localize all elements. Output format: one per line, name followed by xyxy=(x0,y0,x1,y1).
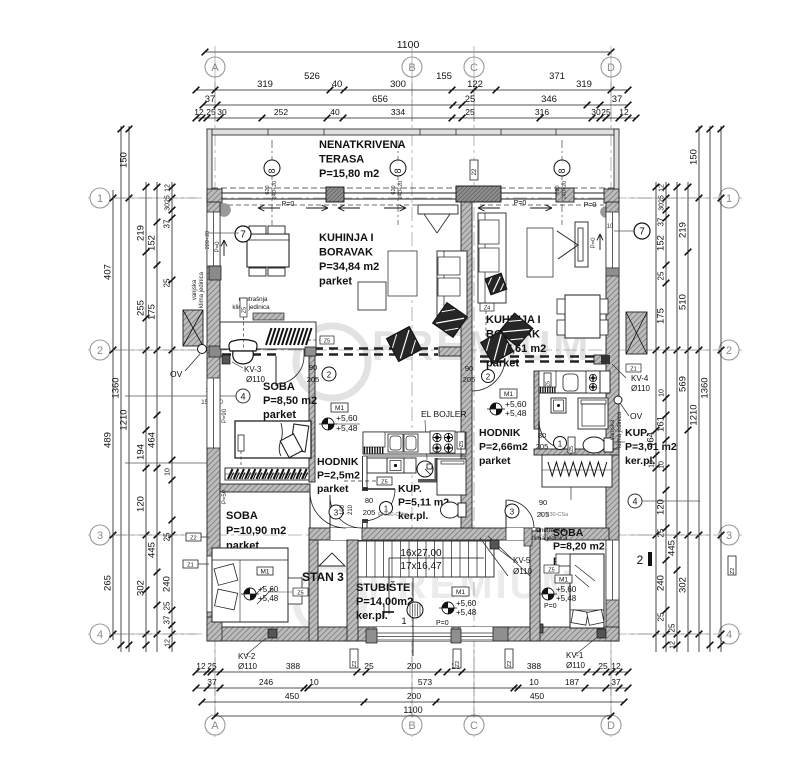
svg-text:+5,48: +5,48 xyxy=(505,408,527,418)
svg-text:2: 2 xyxy=(637,553,644,567)
svg-text:ker.pl.: ker.pl. xyxy=(356,610,388,622)
svg-text:346: 346 xyxy=(541,94,557,105)
svg-text:Ø110: Ø110 xyxy=(238,662,258,671)
svg-text:25: 25 xyxy=(601,107,611,117)
svg-text:1210: 1210 xyxy=(119,409,130,430)
svg-text:300: 300 xyxy=(390,79,406,90)
svg-text:10: 10 xyxy=(309,677,319,687)
svg-text:2: 2 xyxy=(97,345,103,357)
svg-text:HODNIK: HODNIK xyxy=(479,427,521,439)
svg-text:P=0: P=0 xyxy=(436,620,449,627)
svg-text:7: 7 xyxy=(639,227,645,238)
svg-text:25: 25 xyxy=(163,278,172,287)
svg-text:255: 255 xyxy=(136,300,147,316)
svg-text:KUP.: KUP. xyxy=(398,483,422,495)
svg-text:90: 90 xyxy=(309,363,317,372)
svg-text:M1: M1 xyxy=(559,577,568,584)
svg-text:388: 388 xyxy=(286,661,300,671)
svg-text:25: 25 xyxy=(364,661,374,671)
svg-text:656: 656 xyxy=(372,94,388,105)
svg-text:P=0: P=0 xyxy=(282,201,295,208)
svg-text:Z5: Z5 xyxy=(242,307,248,313)
svg-text:P=3,01 m2: P=3,01 m2 xyxy=(625,441,677,453)
svg-text:TERASA: TERASA xyxy=(319,154,364,166)
svg-text:17x16,47: 17x16,47 xyxy=(400,561,442,572)
svg-text:265: 265 xyxy=(103,575,114,591)
svg-text:122: 122 xyxy=(467,79,483,90)
svg-text:Z2: Z2 xyxy=(455,661,461,667)
svg-text:120: 120 xyxy=(136,496,147,512)
svg-text:OV: OV xyxy=(170,369,183,379)
svg-text:30: 30 xyxy=(591,107,601,117)
svg-text:25: 25 xyxy=(465,94,476,105)
svg-text:Z2: Z2 xyxy=(730,568,736,574)
svg-text:152: 152 xyxy=(656,235,667,251)
svg-text:40: 40 xyxy=(330,107,340,117)
svg-text:510: 510 xyxy=(678,294,689,310)
svg-text:ker.pl.: ker.pl. xyxy=(625,455,655,467)
svg-text:Z5: Z5 xyxy=(459,441,465,447)
svg-text:489: 489 xyxy=(103,432,114,448)
svg-text:316: 316 xyxy=(535,107,549,117)
svg-text:150: 150 xyxy=(119,152,130,168)
svg-text:P=14,00m2: P=14,00m2 xyxy=(356,596,413,608)
svg-text:1: 1 xyxy=(401,616,406,626)
svg-text:P=2,66m2: P=2,66m2 xyxy=(479,441,528,453)
svg-text:205: 205 xyxy=(307,375,320,384)
svg-text:12: 12 xyxy=(196,661,206,671)
svg-text:+5,60: +5,60 xyxy=(336,413,358,423)
svg-text:3025: 3025 xyxy=(659,195,666,211)
svg-text:240+20: 240+20 xyxy=(398,181,404,200)
svg-text:Ø110: Ø110 xyxy=(566,661,586,670)
svg-text:573: 573 xyxy=(418,677,432,687)
svg-text:620: 620 xyxy=(391,185,397,194)
svg-text:1: 1 xyxy=(97,193,103,205)
svg-text:parket: parket xyxy=(319,276,352,288)
svg-text:12: 12 xyxy=(670,641,677,649)
svg-text:P=8,20 m2: P=8,20 m2 xyxy=(553,541,605,553)
svg-text:+5,60: +5,60 xyxy=(258,585,279,594)
svg-text:P=0: P=0 xyxy=(591,237,597,249)
svg-text:P=10,90 m2: P=10,90 m2 xyxy=(226,525,286,537)
svg-text:+5,48: +5,48 xyxy=(258,594,279,603)
svg-text:12: 12 xyxy=(165,184,172,192)
svg-text:4: 4 xyxy=(240,392,245,402)
svg-text:Z5: Z5 xyxy=(324,339,330,345)
svg-text:40: 40 xyxy=(332,79,343,90)
svg-text:161: 161 xyxy=(656,416,667,432)
svg-text:unutrašnja: unutrašnja xyxy=(537,527,566,534)
svg-text:A: A xyxy=(211,62,219,74)
svg-text:187: 187 xyxy=(565,677,579,687)
svg-text:12: 12 xyxy=(194,107,204,117)
svg-text:445: 445 xyxy=(147,542,158,558)
svg-text:8: 8 xyxy=(557,168,567,173)
svg-text:194: 194 xyxy=(136,444,147,460)
svg-text:El 230-CSa: El 230-CSa xyxy=(540,512,569,518)
svg-text:450: 450 xyxy=(285,691,299,701)
svg-text:C: C xyxy=(470,720,478,732)
svg-text:16x27,00: 16x27,00 xyxy=(400,548,442,559)
svg-text:22: 22 xyxy=(472,168,478,175)
svg-text:37: 37 xyxy=(207,677,217,687)
svg-text:37: 37 xyxy=(205,94,216,105)
svg-text:1360: 1360 xyxy=(111,377,122,398)
svg-text:Z2: Z2 xyxy=(190,536,196,542)
svg-text:KV-4: KV-4 xyxy=(631,374,649,383)
svg-text:10: 10 xyxy=(659,389,666,397)
svg-text:445: 445 xyxy=(667,540,678,556)
svg-text:Z2: Z2 xyxy=(507,661,513,667)
svg-text:240: 240 xyxy=(162,576,173,592)
svg-text:219: 219 xyxy=(678,222,689,238)
svg-text:240+20: 240+20 xyxy=(272,181,278,200)
svg-text:25: 25 xyxy=(657,612,666,621)
svg-text:25: 25 xyxy=(465,107,475,117)
svg-text:200: 200 xyxy=(407,661,421,671)
svg-text:Z1: Z1 xyxy=(187,563,193,569)
svg-text:334: 334 xyxy=(391,107,405,117)
svg-text:Z1: Z1 xyxy=(630,367,636,373)
svg-text:1100: 1100 xyxy=(403,705,422,715)
svg-text:175: 175 xyxy=(656,308,667,324)
svg-text:210: 210 xyxy=(348,504,354,515)
svg-text:KUHINJA I: KUHINJA I xyxy=(319,232,374,244)
svg-text:P=2,5m2: P=2,5m2 xyxy=(317,470,360,482)
svg-text:parket: parket xyxy=(317,483,349,495)
svg-text:10: 10 xyxy=(607,224,614,230)
svg-text:388: 388 xyxy=(527,661,541,671)
svg-text:M1: M1 xyxy=(456,589,465,596)
svg-text:+5,48: +5,48 xyxy=(456,608,477,617)
svg-text:319: 319 xyxy=(576,79,592,90)
svg-text:A: A xyxy=(211,720,219,732)
svg-text:+5,60: +5,60 xyxy=(456,599,477,608)
svg-text:Z5: Z5 xyxy=(548,568,554,574)
svg-text:569: 569 xyxy=(678,376,689,392)
svg-text:P=90: P=90 xyxy=(222,408,228,423)
svg-text:37: 37 xyxy=(657,217,666,226)
svg-text:8: 8 xyxy=(267,168,277,173)
svg-text:240: 240 xyxy=(656,575,667,591)
svg-text:M1: M1 xyxy=(260,569,269,576)
svg-text:KUP.: KUP. xyxy=(625,427,649,439)
svg-text:240+20: 240+20 xyxy=(562,181,568,200)
svg-text:Z5: Z5 xyxy=(381,480,387,486)
svg-text:155: 155 xyxy=(436,71,452,82)
svg-text:205: 205 xyxy=(363,508,376,517)
svg-text:152: 152 xyxy=(147,235,158,251)
svg-text:25: 25 xyxy=(657,528,666,537)
svg-text:30: 30 xyxy=(217,107,227,117)
svg-text:25: 25 xyxy=(657,271,666,280)
svg-text:HODNIK: HODNIK xyxy=(317,456,359,468)
svg-text:Z2: Z2 xyxy=(352,661,358,667)
svg-text:246: 246 xyxy=(259,677,273,687)
svg-text:302: 302 xyxy=(678,577,689,593)
svg-text:P=0: P=0 xyxy=(514,200,527,207)
svg-text:SOBA: SOBA xyxy=(226,510,258,522)
svg-text:KV-3: KV-3 xyxy=(244,365,262,374)
svg-text:4: 4 xyxy=(97,629,103,641)
svg-text:37: 37 xyxy=(611,677,621,687)
svg-text:252: 252 xyxy=(274,107,288,117)
svg-text:M1: M1 xyxy=(335,405,344,412)
svg-text:37: 37 xyxy=(612,94,623,105)
svg-text:EL BOJLER: EL BOJLER xyxy=(421,409,467,419)
svg-text:464: 464 xyxy=(147,432,158,448)
svg-text:450: 450 xyxy=(530,691,544,701)
svg-text:vanjska: vanjska xyxy=(610,419,616,440)
svg-text:205: 205 xyxy=(536,442,549,451)
svg-text:8: 8 xyxy=(393,168,403,173)
svg-text:2: 2 xyxy=(726,345,732,357)
svg-text:Z4: Z4 xyxy=(484,306,490,312)
svg-text:1360: 1360 xyxy=(700,377,711,398)
svg-text:10: 10 xyxy=(529,677,539,687)
svg-text:vanjska: vanjska xyxy=(192,279,198,300)
svg-text:OV: OV xyxy=(630,411,643,421)
svg-text:1210: 1210 xyxy=(689,404,700,425)
svg-text:1: 1 xyxy=(558,440,563,449)
svg-text:120: 120 xyxy=(656,499,667,515)
svg-text:Ø110: Ø110 xyxy=(631,384,651,393)
svg-text:B: B xyxy=(408,720,415,732)
svg-text:1100: 1100 xyxy=(397,39,420,51)
svg-text:407: 407 xyxy=(103,264,114,280)
svg-text:80: 80 xyxy=(365,496,373,505)
svg-text:90: 90 xyxy=(539,498,547,507)
svg-text:klima jedinica: klima jedinica xyxy=(232,304,270,311)
svg-text:219: 219 xyxy=(136,225,147,241)
svg-text:371: 371 xyxy=(549,71,565,82)
svg-text:90: 90 xyxy=(465,364,473,373)
svg-text:25: 25 xyxy=(163,601,172,610)
svg-text:El 230-CSa: El 230-CSa xyxy=(378,512,407,518)
svg-text:P=0: P=0 xyxy=(544,603,557,610)
svg-text:302: 302 xyxy=(136,580,147,596)
svg-text:klima jedinica: klima jedinica xyxy=(617,411,623,448)
svg-text:12: 12 xyxy=(611,661,621,671)
svg-text:P=15,80 m2: P=15,80 m2 xyxy=(319,168,379,180)
svg-text:Ø110: Ø110 xyxy=(246,375,266,384)
svg-text:Z5: Z5 xyxy=(569,446,575,452)
svg-text:100: 100 xyxy=(340,504,346,515)
svg-text:P=34,84 m2: P=34,84 m2 xyxy=(319,261,379,273)
svg-text:4: 4 xyxy=(726,629,732,641)
svg-text:STUBIŠTE: STUBIŠTE xyxy=(356,581,410,594)
svg-text:12: 12 xyxy=(165,639,172,647)
svg-text:2: 2 xyxy=(486,373,491,382)
svg-text:KV-5: KV-5 xyxy=(513,556,531,565)
svg-text:4: 4 xyxy=(632,497,637,507)
svg-text:25: 25 xyxy=(163,532,172,541)
svg-text:25: 25 xyxy=(598,661,608,671)
svg-text:klima jedinica: klima jedinica xyxy=(199,271,205,308)
svg-text:25: 25 xyxy=(668,623,677,632)
svg-text:parket: parket xyxy=(479,455,511,467)
svg-text:3: 3 xyxy=(334,509,339,518)
svg-text:Ø110: Ø110 xyxy=(513,567,533,576)
svg-text:D: D xyxy=(607,720,615,732)
svg-text:12: 12 xyxy=(619,107,629,117)
svg-text:620: 620 xyxy=(265,185,271,194)
svg-text:319: 319 xyxy=(257,79,273,90)
svg-text:37: 37 xyxy=(163,219,172,228)
svg-text:3: 3 xyxy=(510,508,515,517)
svg-text:+5,60: +5,60 xyxy=(556,585,577,594)
svg-text:KV-1: KV-1 xyxy=(566,651,584,660)
svg-text:1: 1 xyxy=(726,193,732,205)
svg-text:3: 3 xyxy=(97,530,103,542)
svg-text:3: 3 xyxy=(726,530,732,542)
svg-text:STAN 3: STAN 3 xyxy=(302,570,344,584)
svg-text:Z5: Z5 xyxy=(297,591,303,597)
svg-text:12: 12 xyxy=(659,184,666,192)
svg-text:205: 205 xyxy=(463,375,476,384)
svg-text:620: 620 xyxy=(555,185,561,194)
svg-text:7: 7 xyxy=(240,230,246,241)
svg-text:+5,48: +5,48 xyxy=(556,594,577,603)
svg-text:parket: parket xyxy=(263,409,296,421)
svg-text:BORAVAK: BORAVAK xyxy=(319,247,373,259)
svg-text:Z5: Z5 xyxy=(546,381,552,387)
svg-text:200: 200 xyxy=(407,691,421,701)
svg-text:P=0: P=0 xyxy=(584,202,597,209)
svg-text:80: 80 xyxy=(538,431,546,440)
svg-text:25: 25 xyxy=(207,661,217,671)
svg-text:25: 25 xyxy=(206,107,216,117)
svg-text:+5,48: +5,48 xyxy=(336,423,358,433)
svg-text:175: 175 xyxy=(147,304,158,320)
svg-text:10: 10 xyxy=(165,468,172,476)
svg-text:P=8,50 m2: P=8,50 m2 xyxy=(263,395,317,407)
svg-text:NENATKRIVENA: NENATKRIVENA xyxy=(319,139,406,151)
svg-text:150: 150 xyxy=(689,149,700,165)
svg-text:2: 2 xyxy=(327,371,332,380)
svg-text:P=0: P=0 xyxy=(215,241,221,253)
svg-text:526: 526 xyxy=(304,71,320,82)
svg-text:P=50: P=50 xyxy=(222,489,228,504)
svg-text:37: 37 xyxy=(163,615,172,624)
svg-text:M1: M1 xyxy=(504,391,513,398)
svg-text:KV-2: KV-2 xyxy=(238,652,256,661)
svg-text:3025: 3025 xyxy=(165,195,172,211)
svg-text:klima jedinica: klima jedinica xyxy=(530,535,568,542)
svg-text:SOBA: SOBA xyxy=(263,381,295,393)
svg-text:10: 10 xyxy=(659,461,666,469)
svg-text:220+20: 220+20 xyxy=(205,231,211,250)
